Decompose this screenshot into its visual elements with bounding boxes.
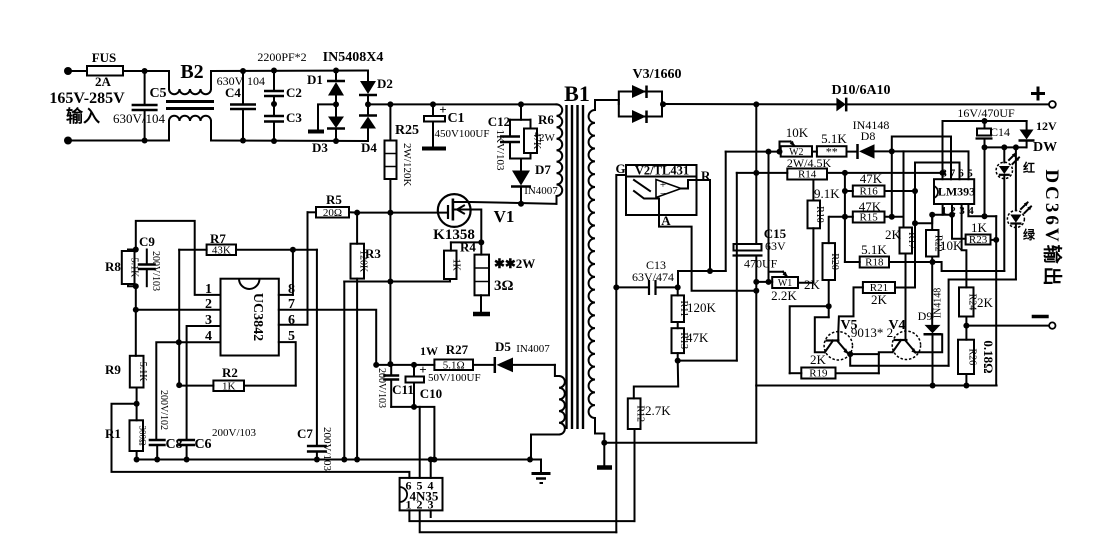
resistor R8 5.1K [133,247,139,253]
svg-text:2K: 2K [871,292,888,307]
svg-text:12V: 12V [1036,119,1057,133]
svg-text:IN4148: IN4148 [933,288,944,319]
wire AC top rail [68,70,87,72]
svg-text:C5: C5 [149,86,166,101]
svg-text:R25: R25 [395,123,419,138]
wire V4 base from R19 [879,352,892,373]
svg-text:5.1Ω: 5.1Ω [443,359,465,371]
node: + output terminal [1049,101,1056,108]
svg-text:C14: C14 [990,125,1010,139]
svg-text:5.1K: 5.1K [861,242,887,257]
wire V5 emitter node [847,351,853,357]
fuse FUS 2A [87,66,123,76]
svg-text:5.1K: 5.1K [137,362,148,383]
capacitor C2 [273,71,275,92]
svg-text:R4: R4 [460,240,476,255]
svg-text:R2: R2 [222,365,238,380]
resistor R9 5.1K [135,310,137,356]
svg-text:9.1K: 9.1K [814,186,840,201]
transformer secondary ground lead [595,418,604,443]
svg-text:2: 2 [950,205,956,217]
svg-text:C4: C4 [225,85,241,100]
svg-text:C10: C10 [420,386,442,401]
svg-text:IN5408X4: IN5408X4 [323,50,384,65]
wire R13 node to R12 [634,361,678,399]
wire TL431 G to cathode spine [616,175,626,532]
node: - output terminal [1049,322,1055,328]
svg-text:R1: R1 [105,426,121,441]
resistor 3ohm 2W source sense [480,242,482,254]
svg-text:300Ω: 300Ω [137,426,147,447]
diode D3 [335,104,337,116]
svg-text:C11: C11 [392,382,414,397]
capacitor C3 [273,96,275,116]
wire 4N35 pin2 to TL431 cathode spine [420,510,617,532]
svg-text:10K: 10K [786,125,809,140]
svg-text:R6: R6 [538,112,554,127]
svg-text:LM393: LM393 [938,185,975,199]
svg-text:7: 7 [950,168,956,180]
capacitor C12 1KV/103 [518,101,524,107]
svg-text:200V/103: 200V/103 [376,368,387,408]
wire LM393 pin8 riser [942,121,944,179]
wire rectified rail to transformer primary [368,103,557,105]
svg-text:V1: V1 [494,207,515,226]
resistor R1 300ohm [136,404,138,421]
ground bar secondary [603,443,605,466]
svg-text:63V/474: 63V/474 [632,270,674,284]
wire B2 to bridge bottom rail [211,140,368,143]
wire UC3842 pin3 to C6 [187,326,221,440]
wire D8 node to LM393 pin5 [892,151,969,179]
svg-text:R3: R3 [365,246,381,261]
wire TL431 R reference [697,180,711,271]
IC V2/TL431 [626,165,697,215]
wire R20 to V5 base [815,317,829,352]
wire C10/C11 bottom to ground rail [391,407,434,460]
resistor R3 120K [356,213,358,244]
svg-text:2A: 2A [95,74,112,89]
svg-text:−: − [660,188,666,200]
wire V3 output rail [662,103,836,105]
wire D8 node down to R15 right [891,151,893,216]
svg-text:C2: C2 [286,85,302,100]
svg-text:R12: R12 [635,405,646,422]
wire V1 gate [357,212,448,214]
svg-text:630V/104: 630V/104 [113,111,166,126]
optocoupler U2 4N35 [400,478,443,511]
svg-text:R20: R20 [829,253,840,270]
svg-text:6: 6 [288,313,295,328]
capacitor C5 630V/104 [144,71,146,105]
svg-text:G: G [615,161,625,176]
resistor R12 2.7K [628,398,641,429]
svg-text:50V/100UF: 50V/100UF [428,372,481,384]
wire R5 to UC3842 pin6 [279,212,308,324]
svg-text:200V/103: 200V/103 [321,427,333,472]
resistor R6 2W [530,120,532,129]
diode D5 IN4007 [494,357,497,373]
ground chassis bar [308,130,324,134]
wire 12V aux top rail [943,120,1027,122]
wire LM393 pin3 to R24 [962,204,967,287]
svg-text:R15: R15 [859,212,878,224]
svg-text:2W/120K: 2W/120K [401,143,413,186]
svg-text:R27: R27 [446,342,469,357]
wire bridge midpoint to chassis ground [318,104,336,130]
svg-text:IN4007: IN4007 [524,185,558,197]
resistor R22 10K [926,230,939,257]
svg-text:2.2K: 2.2K [771,288,797,303]
IC U1 UC3842 [221,279,279,356]
svg-text:R19: R19 [809,368,828,380]
svg-text:3Ω: 3Ω [494,278,514,294]
diode D4 [367,104,369,115]
transformer B1 core [565,105,567,429]
svg-text:200V/102: 200V/102 [158,390,169,430]
svg-text:200V/103: 200V/103 [212,427,257,439]
svg-text:V3/1660: V3/1660 [633,67,682,82]
wire B2 to bridge top rail [211,70,368,73]
transformer B1 primary winding [557,104,563,196]
svg-text:D8: D8 [861,129,876,143]
wire V5 collector to R21 [838,287,863,331]
wire UC3842 pin4 timing [156,342,220,440]
wire V4 emitter to D9 [915,334,942,352]
wire R7 right to pin8 and C7 [236,249,317,251]
svg-text:D3: D3 [312,140,328,155]
svg-text:DC36V输出: DC36V输出 [1041,169,1064,288]
svg-text:2200PF*2: 2200PF*2 [257,50,306,64]
svg-text:4N35: 4N35 [410,489,439,504]
svg-text:165V-285V: 165V-285V [49,90,125,107]
svg-text:+: + [439,102,446,117]
svg-text:450V100UF: 450V100UF [434,128,489,140]
resistor R13 47K [677,322,679,328]
svg-text:C6: C6 [194,437,211,452]
wire R4 bottom rail [344,281,450,283]
svg-text:104: 104 [247,74,265,88]
wire D8 node branch to R17 [903,151,905,227]
capacitor C7 200V/103 [316,250,318,446]
transformer B1 secondary winding [594,104,596,110]
wire green LED cathode to V5 emitter rail [949,280,1016,366]
ground for 3ohm resistor [473,312,490,317]
IC U3 LM393 [934,179,974,204]
wire LM393 pins 1-2 tie [929,212,935,218]
capacitor C11 200V/103 [390,365,392,376]
resistor R26 0.18ohm current sense [965,326,967,340]
wire 0V rail to minus sense [756,385,996,387]
svg-text:IN4007: IN4007 [516,343,550,355]
wire UC3842 pin5 to R2 [279,342,296,386]
svg-text:D10/6A10: D10/6A10 [831,83,890,98]
wire pin7 supply node [376,364,434,366]
wire reference node riser to W2 line [725,152,727,271]
svg-text:R18: R18 [865,257,884,269]
diode D7 IN4007 [520,159,522,171]
svg-text:DW: DW [1033,140,1057,155]
svg-text:C9: C9 [139,234,155,249]
svg-text:1K: 1K [222,380,236,392]
resistor R25 2W/120K [387,101,393,107]
svg-text:+: + [419,362,426,377]
svg-text:1: 1 [941,205,947,217]
capacitor C6 200V/103 [178,439,195,442]
svg-text:R10: R10 [814,206,825,223]
wire R20 node to R19 [790,306,829,373]
wire 4N35 pin4 to ground rail [430,460,432,478]
svg-text:47K: 47K [860,171,883,186]
svg-text:输入: 输入 [66,106,100,126]
resistor R20 2K [828,217,830,243]
svg-text:6: 6 [958,168,964,180]
svg-text:1KV/103: 1KV/103 [494,130,506,171]
capacitor C8 200V/102 [149,439,166,442]
svg-text:2W: 2W [539,132,556,144]
svg-text:120K: 120K [687,300,717,315]
wire R25/gate node to pin7 node [389,213,391,365]
LED green indicator [1015,147,1017,210]
svg-text:FUS: FUS [92,50,117,65]
svg-text:D4: D4 [361,140,377,155]
svg-text:V2/TL431: V2/TL431 [635,164,689,178]
node C2/C3 junctions [271,68,277,74]
wire D10 to + output terminal [846,103,1049,105]
svg-text:47K: 47K [686,330,709,345]
wire AC bottom rail [68,140,169,142]
wire LED anode rail [985,146,1026,148]
svg-text:C12: C12 [488,114,510,129]
capacitor C1 450V100UF [430,101,436,107]
wire red LED cathode to comparator node [933,262,1005,271]
svg-text:R8: R8 [105,259,121,274]
wire spine to secondary mid rail [755,386,757,443]
svg-text:1W: 1W [420,344,438,358]
diode D1 [335,71,337,82]
svg-text:绿: 绿 [1023,227,1036,242]
svg-text:5: 5 [967,168,973,180]
ground symbol primary [540,460,542,473]
wire pin6 riser to ladder [915,163,960,180]
wire UC3842 pin7 Vcc [279,310,376,365]
svg-text:2K: 2K [977,295,994,310]
svg-text:200V/103: 200V/103 [150,251,161,291]
svg-text:UC3842: UC3842 [250,293,265,341]
capacitor C4 630V 104 [242,71,244,105]
wire R23 node down to 0V rail [995,240,997,386]
svg-text:D5: D5 [495,339,511,354]
wire UC3842 pin8 Vref [279,294,293,296]
wire D8 node to LM393 pin7 [892,137,951,180]
output + symbol [1031,92,1045,95]
svg-text:10K: 10K [940,238,963,253]
svg-text:R16: R16 [859,186,878,198]
svg-text:D1: D1 [307,72,323,87]
wire UC3842 pin2 feedback [136,309,221,311]
node: AC input terminal L [64,67,72,75]
capacitor C10 50V/100UF [413,365,415,377]
svg-text:B1: B1 [564,81,590,106]
svg-text:1K: 1K [971,220,988,235]
svg-text:R9: R9 [105,362,121,377]
resistor R21 2K [863,282,895,293]
wire +36V spine [755,104,757,244]
wire reference node horizontal [678,270,726,272]
svg-text:20Ω: 20Ω [323,207,342,219]
wire 4N35 pin5 to aux supply [419,407,421,478]
svg-text:✱✱2W: ✱✱2W [494,256,535,271]
svg-text:9013* 2: 9013* 2 [851,325,893,340]
svg-text:2K: 2K [804,277,821,292]
svg-text:2K: 2K [810,352,827,367]
svg-text:8: 8 [941,168,947,180]
transformer B1 aux winding [555,365,559,376]
node: AC input terminal N [64,137,72,145]
LED red indicator [1003,147,1005,162]
wire R9/R1 node bypass to 4N35 pin6 [112,404,410,478]
svg-text:D2: D2 [377,76,393,91]
output - symbol [1032,315,1049,319]
wire R13 node to R14 riser [678,360,737,362]
svg-text:2.7K: 2.7K [645,403,671,418]
svg-text:1K: 1K [451,259,462,272]
svg-text:470UF: 470UF [744,257,778,271]
wire UC3842 pin1 to compensation node [136,221,221,295]
svg-text:R5: R5 [326,192,342,207]
svg-text:16V/470UF: 16V/470UF [957,106,1015,120]
wire 4N35 pin1 to R12 [409,510,634,521]
svg-text:R24: R24 [967,294,978,311]
svg-text:D7: D7 [535,162,551,177]
resistor R24 2K [959,287,974,316]
diode D2 [367,71,369,82]
transistor V1 K1358 MOSFET [438,194,471,227]
wire V1 source to R4 and 3ohm resistor [471,210,482,243]
wire 4N35 pin3 stub [430,510,432,517]
wire LM393 pin4 to LED supply node [968,204,996,216]
svg-text:0.18Ω: 0.18Ω [981,340,996,373]
wire compensation node down to pin2 node [135,286,137,310]
svg-text:C3: C3 [286,110,302,125]
wire secondary 0V mid rail [604,442,756,444]
wire V+ ladder vertical [844,173,846,262]
zener diode DW 12V [1026,121,1028,130]
svg-text:43K: 43K [212,244,231,256]
wire minus output rail [966,325,1049,327]
svg-text:R26: R26 [966,349,977,366]
svg-text:D9: D9 [918,309,933,323]
wire primary ground rail [137,459,541,461]
resistor R4 1K [450,242,452,250]
svg-text:B2: B2 [180,61,203,83]
svg-text:红: 红 [1023,160,1035,175]
svg-text:C7: C7 [297,426,313,441]
resistor R11 120K [677,287,679,295]
potentiometer W1 2.2K [756,281,772,283]
wire R14 right to pin8 riser [827,172,943,174]
wire fuse to C5/B2 [123,70,169,72]
svg-text:R23: R23 [969,234,988,246]
svg-text:C1: C1 [447,111,464,126]
resistor R2 1K [178,342,180,385]
capacitor C13 63V/474 [616,286,649,288]
